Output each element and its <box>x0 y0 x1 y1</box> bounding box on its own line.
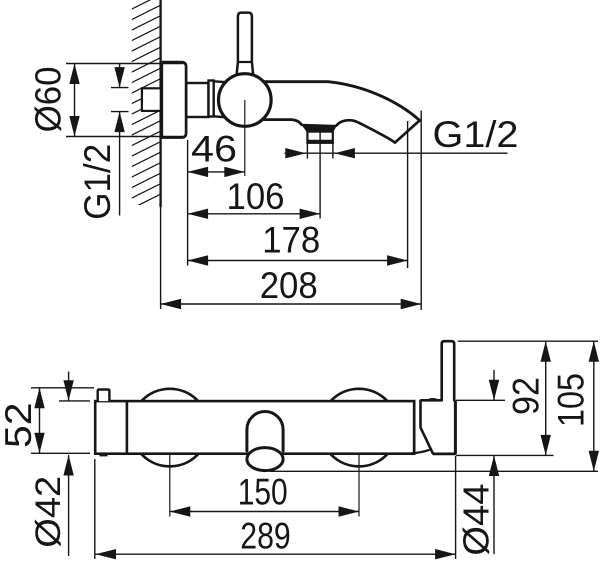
svg-text:46: 46 <box>191 129 237 170</box>
svg-text:289: 289 <box>240 516 291 557</box>
svg-text:G1/2: G1/2 <box>433 114 519 155</box>
svg-text:G1/2: G1/2 <box>77 144 118 220</box>
svg-text:150: 150 <box>238 472 288 513</box>
svg-text:105: 105 <box>551 373 592 427</box>
svg-text:Ø42: Ø42 <box>29 476 68 548</box>
svg-text:178: 178 <box>262 219 320 260</box>
svg-text:92: 92 <box>506 377 547 415</box>
svg-text:Ø44: Ø44 <box>455 484 496 556</box>
svg-text:208: 208 <box>260 265 318 306</box>
svg-text:106: 106 <box>227 176 285 217</box>
svg-text:Ø60: Ø60 <box>28 66 69 132</box>
svg-text:52: 52 <box>0 403 39 449</box>
